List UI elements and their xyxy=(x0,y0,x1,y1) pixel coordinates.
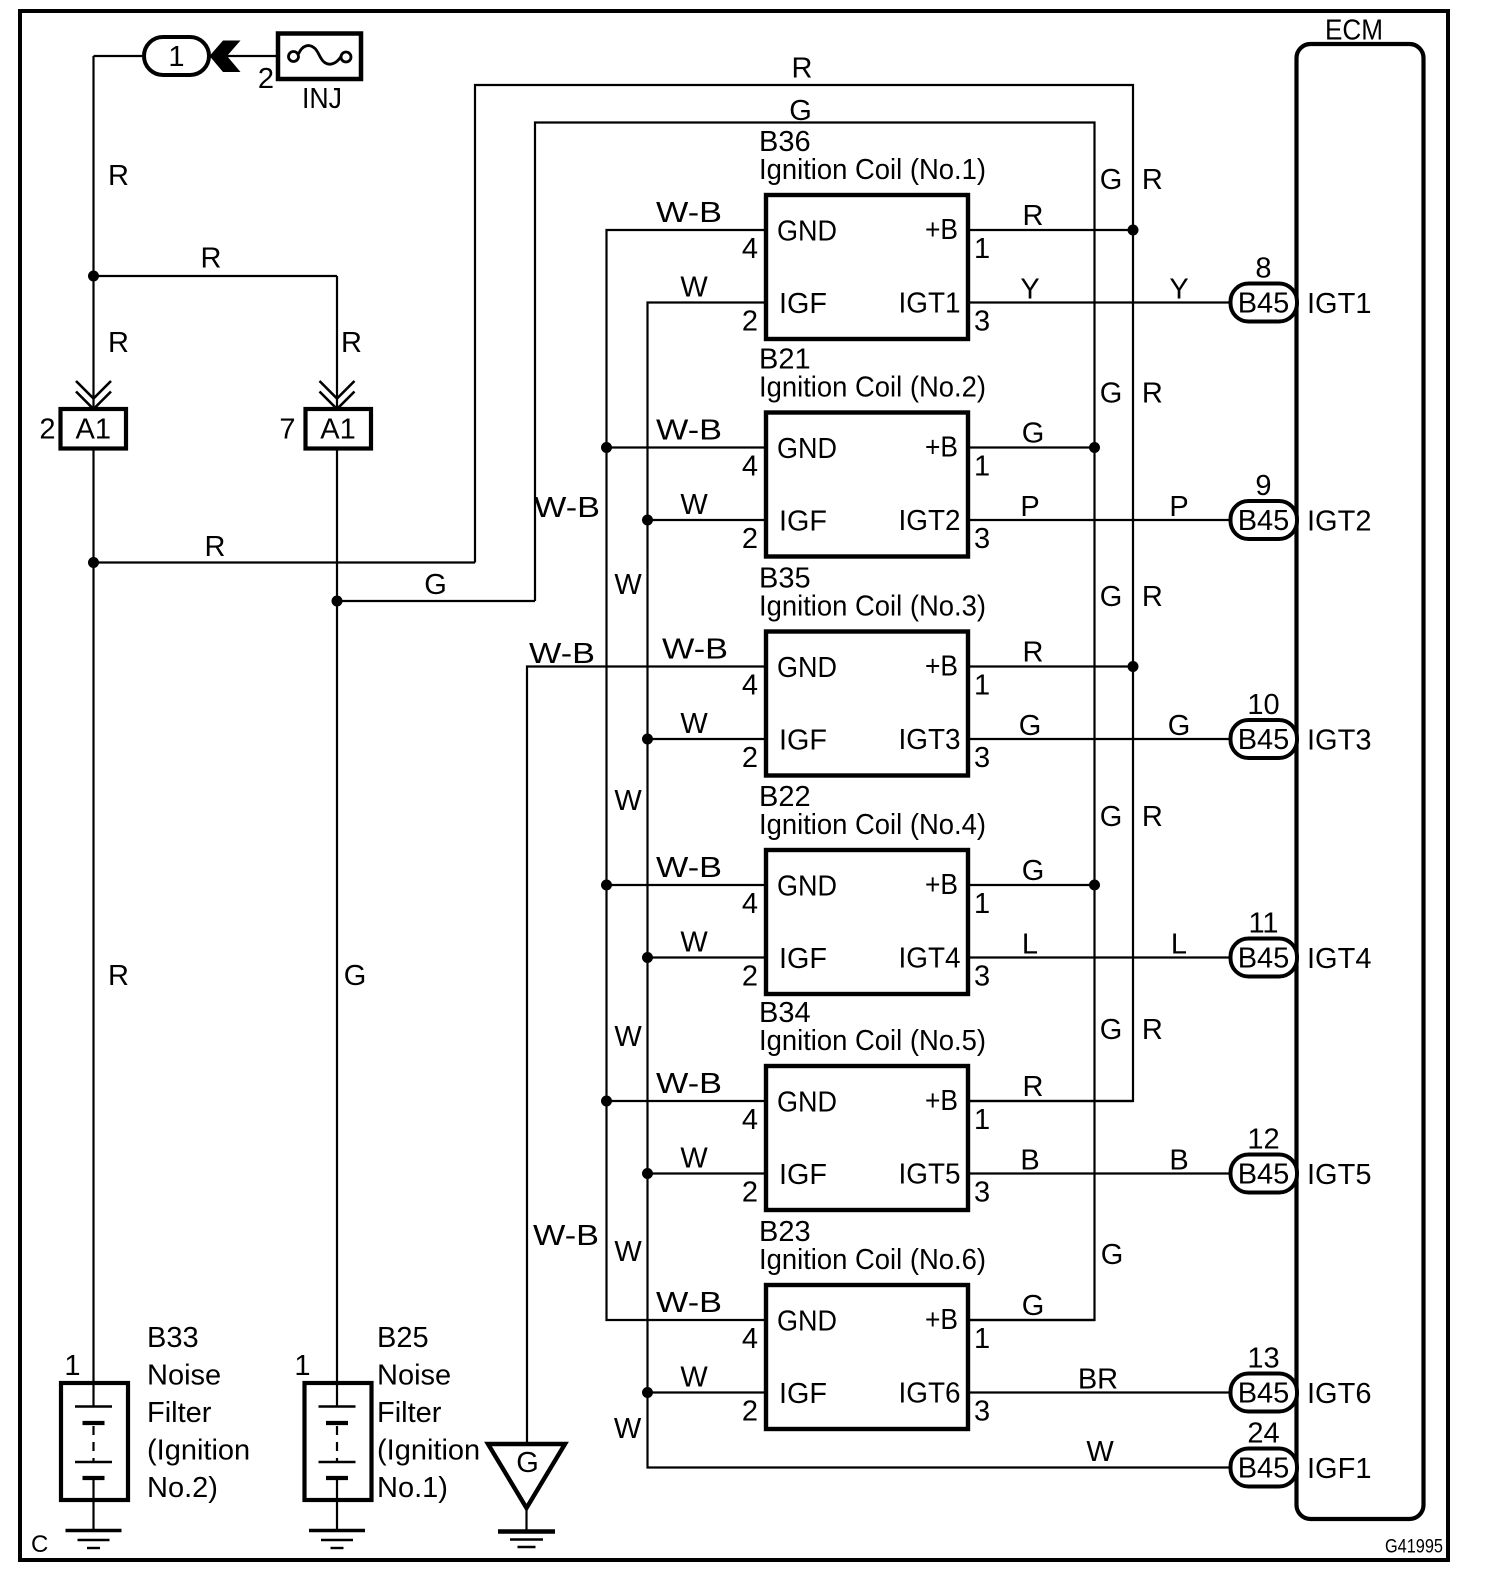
svg-text:L: L xyxy=(1022,929,1038,961)
svg-text:B45: B45 xyxy=(1238,1453,1290,1485)
svg-text:+B: +B xyxy=(925,869,958,901)
svg-text:GND: GND xyxy=(777,871,837,903)
svg-text:IGF: IGF xyxy=(779,1159,827,1191)
svg-text:Filter: Filter xyxy=(147,1397,212,1429)
svg-text:G: G xyxy=(1022,418,1045,450)
svg-text:B45: B45 xyxy=(1238,943,1290,975)
svg-text:2: 2 xyxy=(742,523,758,555)
svg-text:G: G xyxy=(1100,581,1123,613)
svg-text:W: W xyxy=(680,927,708,959)
svg-text:(Ignition: (Ignition xyxy=(147,1435,250,1467)
svg-text:11: 11 xyxy=(1248,908,1278,940)
svg-text:B45: B45 xyxy=(1238,1378,1290,1410)
svg-text:G: G xyxy=(1019,710,1042,742)
svg-text:INJ: INJ xyxy=(302,83,342,115)
svg-text:9: 9 xyxy=(1255,470,1271,502)
svg-text:4: 4 xyxy=(742,888,758,920)
svg-text:P: P xyxy=(1169,491,1188,523)
svg-text:IGT3: IGT3 xyxy=(1307,725,1371,757)
svg-text:IGT4: IGT4 xyxy=(899,943,961,975)
svg-text:R: R xyxy=(1142,378,1163,410)
svg-text:G: G xyxy=(1100,164,1123,196)
svg-text:7: 7 xyxy=(279,414,295,446)
svg-text:1: 1 xyxy=(64,1350,80,1382)
svg-text:W: W xyxy=(614,785,642,817)
svg-text:IGT5: IGT5 xyxy=(1307,1159,1371,1191)
svg-text:R: R xyxy=(201,243,222,275)
svg-text:W-B: W-B xyxy=(656,1068,722,1100)
svg-text:G: G xyxy=(1100,1014,1123,1046)
svg-text:1: 1 xyxy=(974,1104,990,1136)
svg-text:IGF: IGF xyxy=(779,943,827,975)
svg-text:IGT5: IGT5 xyxy=(899,1159,961,1191)
svg-text:R: R xyxy=(205,531,226,563)
svg-text:B45: B45 xyxy=(1238,1159,1290,1191)
svg-text:IGT6: IGT6 xyxy=(1307,1378,1371,1410)
svg-text:Noise: Noise xyxy=(377,1360,451,1392)
svg-text:3: 3 xyxy=(974,961,990,993)
svg-text:8: 8 xyxy=(1255,253,1271,285)
svg-text:B: B xyxy=(1169,1145,1188,1177)
svg-text:A1: A1 xyxy=(76,414,111,446)
svg-text:IGT2: IGT2 xyxy=(899,505,961,537)
svg-text:R: R xyxy=(341,327,362,359)
svg-text:W-B: W-B xyxy=(656,852,722,884)
svg-text:IGF: IGF xyxy=(779,1378,827,1410)
svg-text:Ignition Coil (No.3): Ignition Coil (No.3) xyxy=(759,591,986,623)
svg-text:+B: +B xyxy=(925,214,958,246)
svg-text:R: R xyxy=(1023,637,1044,669)
svg-text:GND: GND xyxy=(777,1087,837,1119)
svg-text:G: G xyxy=(789,95,812,127)
svg-text:W-B: W-B xyxy=(533,1220,599,1252)
svg-text:W-B: W-B xyxy=(662,634,728,666)
svg-text:Ignition Coil (No.1): Ignition Coil (No.1) xyxy=(759,154,986,186)
svg-text:13: 13 xyxy=(1247,1343,1279,1375)
svg-text:2: 2 xyxy=(742,1177,758,1209)
svg-text:W-B: W-B xyxy=(529,638,595,670)
svg-text:No.1): No.1) xyxy=(377,1472,448,1504)
svg-text:W: W xyxy=(614,1236,642,1268)
svg-text:W-B: W-B xyxy=(656,197,722,229)
svg-text:R: R xyxy=(1142,1014,1163,1046)
svg-text:W: W xyxy=(614,569,642,601)
svg-text:G: G xyxy=(1100,378,1123,410)
svg-text:IGF: IGF xyxy=(779,506,827,538)
svg-text:G: G xyxy=(1100,801,1123,833)
svg-text:W: W xyxy=(1086,1436,1114,1468)
svg-text:No.2): No.2) xyxy=(147,1472,218,1504)
svg-text:ECM: ECM xyxy=(1325,15,1383,47)
svg-text:B45: B45 xyxy=(1238,505,1290,537)
svg-text:1: 1 xyxy=(974,233,990,265)
svg-text:R: R xyxy=(1142,581,1163,613)
svg-text:A1: A1 xyxy=(320,414,355,446)
svg-text:B45: B45 xyxy=(1238,724,1290,756)
svg-text:IGT1: IGT1 xyxy=(1307,288,1371,320)
svg-text:R: R xyxy=(1142,801,1163,833)
svg-text:2: 2 xyxy=(742,1396,758,1428)
svg-text:2: 2 xyxy=(258,63,274,95)
svg-text:+B: +B xyxy=(925,651,958,683)
svg-text:R: R xyxy=(1023,1071,1044,1103)
svg-text:G: G xyxy=(1101,1239,1124,1271)
svg-text:1: 1 xyxy=(974,670,990,702)
svg-text:C: C xyxy=(31,1531,48,1558)
svg-text:G: G xyxy=(1168,710,1191,742)
svg-text:2: 2 xyxy=(39,414,55,446)
svg-text:W: W xyxy=(680,272,708,304)
svg-text:W: W xyxy=(614,1413,642,1445)
svg-text:24: 24 xyxy=(1247,1418,1279,1450)
svg-text:4: 4 xyxy=(742,233,758,265)
svg-text:W: W xyxy=(680,1362,708,1394)
svg-text:+B: +B xyxy=(925,1085,958,1117)
svg-text:Ignition Coil (No.6): Ignition Coil (No.6) xyxy=(759,1244,986,1276)
svg-text:B33: B33 xyxy=(147,1322,199,1354)
svg-text:4: 4 xyxy=(742,1323,758,1355)
svg-text:2: 2 xyxy=(742,306,758,338)
svg-text:3: 3 xyxy=(974,1396,990,1428)
svg-text:Filter: Filter xyxy=(377,1397,442,1429)
svg-text:4: 4 xyxy=(742,1104,758,1136)
svg-text:W: W xyxy=(614,1021,642,1053)
svg-text:+B: +B xyxy=(925,1304,958,1336)
svg-text:Y: Y xyxy=(1020,274,1039,306)
svg-text:10: 10 xyxy=(1247,689,1279,721)
svg-text:IGT4: IGT4 xyxy=(1307,943,1371,975)
svg-text:1: 1 xyxy=(974,1323,990,1355)
svg-text:W-B: W-B xyxy=(656,415,722,447)
svg-text:(Ignition: (Ignition xyxy=(377,1435,480,1467)
svg-text:IGT2: IGT2 xyxy=(1307,506,1371,538)
svg-text:B25: B25 xyxy=(377,1322,429,1354)
svg-text:1: 1 xyxy=(168,41,184,73)
svg-text:GND: GND xyxy=(777,216,837,248)
svg-text:L: L xyxy=(1171,929,1187,961)
svg-text:IGF1: IGF1 xyxy=(1307,1453,1371,1485)
svg-text:BR: BR xyxy=(1078,1364,1118,1396)
svg-text:B45: B45 xyxy=(1238,288,1290,320)
svg-text:Ignition Coil (No.4): Ignition Coil (No.4) xyxy=(759,809,986,841)
svg-text:R: R xyxy=(1142,164,1163,196)
svg-text:R: R xyxy=(108,327,129,359)
svg-text:R: R xyxy=(792,53,813,85)
svg-text:3: 3 xyxy=(974,742,990,774)
svg-text:G: G xyxy=(1022,1290,1045,1322)
svg-text:R: R xyxy=(108,960,129,992)
svg-text:GND: GND xyxy=(777,433,837,465)
svg-text:G: G xyxy=(424,569,447,601)
svg-text:IGT1: IGT1 xyxy=(899,288,961,320)
svg-text:Ignition Coil (No.5): Ignition Coil (No.5) xyxy=(759,1025,986,1057)
svg-text:2: 2 xyxy=(742,961,758,993)
svg-text:3: 3 xyxy=(974,1177,990,1209)
svg-text:R: R xyxy=(108,160,129,192)
svg-text:GND: GND xyxy=(777,652,837,684)
svg-text:1: 1 xyxy=(974,451,990,483)
svg-text:Noise: Noise xyxy=(147,1360,221,1392)
svg-text:P: P xyxy=(1020,491,1039,523)
svg-text:3: 3 xyxy=(974,523,990,555)
svg-text:4: 4 xyxy=(742,451,758,483)
svg-text:1: 1 xyxy=(974,888,990,920)
svg-text:IGF: IGF xyxy=(779,288,827,320)
svg-text:W: W xyxy=(680,489,708,521)
svg-text:3: 3 xyxy=(974,306,990,338)
svg-text:12: 12 xyxy=(1247,1124,1279,1156)
svg-text:W: W xyxy=(680,1143,708,1175)
svg-text:R: R xyxy=(1023,200,1044,232)
svg-text:G: G xyxy=(1022,855,1045,887)
svg-text:G: G xyxy=(516,1447,539,1479)
svg-text:1: 1 xyxy=(294,1350,310,1382)
svg-text:+B: +B xyxy=(925,432,958,464)
svg-text:W-B: W-B xyxy=(534,492,600,524)
svg-text:W-B: W-B xyxy=(656,1287,722,1319)
svg-text:Y: Y xyxy=(1169,274,1188,306)
svg-text:G: G xyxy=(344,960,367,992)
svg-text:2: 2 xyxy=(742,742,758,774)
svg-text:4: 4 xyxy=(742,670,758,702)
svg-text:B: B xyxy=(1020,1145,1039,1177)
svg-text:GND: GND xyxy=(777,1306,837,1338)
svg-text:G41995: G41995 xyxy=(1385,1537,1443,1558)
svg-text:IGT3: IGT3 xyxy=(899,724,961,756)
svg-text:IGF: IGF xyxy=(779,725,827,757)
svg-text:IGT6: IGT6 xyxy=(899,1378,961,1410)
svg-text:W: W xyxy=(680,708,708,740)
svg-text:Ignition Coil (No.2): Ignition Coil (No.2) xyxy=(759,372,986,404)
